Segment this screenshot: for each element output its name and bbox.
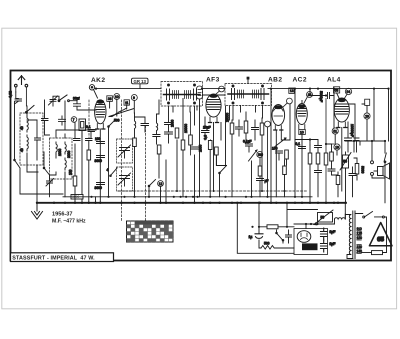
oscillator coil dashed box [50,138,73,179]
capacitor 5000pF text [319,91,323,102]
svg-text:2000: 2000 [67,150,71,158]
resistor 75 [69,169,77,186]
field coil loops [335,214,346,224]
mains switch [355,212,384,219]
mains wire right [383,217,387,253]
svg-text:AF3: AF3 [206,77,220,84]
rail cap 329 [310,89,334,99]
resistor 357 [354,158,365,180]
gang link dashed [89,100,146,222]
svg-text:65: 65 [377,237,384,243]
table grid [127,221,174,242]
label 10uF [203,126,211,130]
cap 260 low [257,179,269,197]
pin circle 267 [265,121,271,197]
cap under IFT1 [165,123,173,133]
vertical text 1000 [199,144,203,152]
svg-text:54: 54 [347,90,351,94]
ground bus thick [37,202,346,204]
antenna coil dashed box [20,113,43,165]
svg-text:30µf: 30µf [73,97,80,101]
speaker [374,163,390,179]
AC2 pin circle 36 [304,92,313,104]
svg-text:150: 150 [357,236,363,240]
svg-text:3000: 3000 [72,195,80,199]
wires AC2 [295,89,302,197]
switch 4 [107,168,118,177]
cap 318 low [315,171,322,197]
pin circle 10 [114,94,120,100]
tube label AK2 [91,77,105,84]
wires antenna block [27,106,38,203]
resistor 159 [157,100,161,178]
band switch [26,106,35,114]
warning triangle 65 [369,223,392,246]
svg-text:3000: 3000 [95,186,103,190]
cap 0,1 mid [42,100,50,135]
svg-text:51: 51 [333,129,337,133]
pin circle 16 [334,144,340,150]
resistor 232 25000 [226,113,234,197]
svg-text:0,02: 0,02 [9,91,13,98]
svg-text:10: 10 [300,131,304,135]
caps 10000pF pair [345,124,360,152]
AZ1 label box [302,243,318,251]
wires osc block [50,130,66,197]
oscillator coils [56,142,71,170]
wires below IFT1 [169,99,198,203]
box GR13 [132,78,149,88]
IFT1 internals [164,84,201,104]
switch AF3 low [216,155,226,197]
small switch power [276,230,284,243]
cap 89 col [86,139,93,151]
box 197 [197,86,203,197]
wires AL4 [334,89,367,191]
AL4 pin box B [365,99,370,105]
cap 249 low [243,140,253,153]
resistor 210 [204,135,213,197]
svg-text:1956-37: 1956-37 [52,212,73,218]
svg-text:40: 40 [20,126,24,130]
svg-text:26: 26 [365,114,369,118]
svg-text:2000: 2000 [171,119,175,127]
cap 352 low [349,167,356,197]
wires AB2 [271,89,290,203]
svg-text:25000: 25000 [226,113,230,122]
IFT2 internals [228,85,269,104]
resistor 177 [171,119,179,138]
cap 194 low [191,147,199,149]
tube label AL4 [327,77,341,84]
text MF 477 kHz [52,219,86,225]
transformer primary [345,203,353,259]
svg-text:GR 13: GR 13 [134,79,147,84]
resistor 338 low [332,172,340,197]
resistor 183b [181,140,185,150]
pin box 291 [289,88,294,93]
cap2 under IFT1 [165,132,173,143]
top supply rail [53,89,389,101]
pin box 11 [124,100,129,105]
switch 2 [58,95,69,102]
svg-text:10: 10 [115,95,119,99]
switch left low [14,159,63,194]
svg-text:AZ1: AZ1 [304,245,314,251]
IF transformer 1 dashed box [161,82,203,107]
cap 318 high [315,146,322,154]
AL4 pin box 58 [334,87,340,93]
trimmer box 82 [79,119,86,137]
cap 239 [236,120,243,136]
ground symbol [32,203,43,219]
svg-text:12: 12 [159,182,163,186]
electrolytic 8uF 1 [321,228,336,240]
svg-text:58: 58 [335,89,339,93]
svg-text:50: 50 [321,216,325,220]
small cap power [286,230,292,243]
pot diag 252 [249,150,258,161]
tube label AC2 [293,77,307,84]
trimmer low [46,179,54,197]
pin circle 74 [71,117,77,123]
AB2 pin circle [283,98,292,107]
svg-text:1000: 1000 [199,144,203,152]
switch 152 [148,180,155,197]
wires below IFT2 [233,77,263,120]
AF3 pin circle [216,86,224,94]
svg-text:0,3: 0,3 [204,135,208,140]
svg-text:220: 220 [357,245,363,249]
dashed AVC bus [118,190,308,192]
AVC pot diag [275,138,286,147]
solid bus [63,196,312,198]
svg-text:40: 40 [20,148,24,152]
svg-text:AB2: AB2 [268,77,282,84]
svg-text:3000: 3000 [95,159,103,163]
transformer core [353,211,355,259]
svg-text:110: 110 [357,227,362,231]
tube AK2 [95,100,106,129]
svg-text:125: 125 [357,232,363,236]
svg-text:100: 100 [69,169,73,175]
resistor 310 [308,145,312,203]
resistor 246 [244,112,248,143]
tube AC2 [296,104,307,130]
resistor box 284.5 [283,160,287,197]
cap 3000 b [95,183,105,191]
svg-text:µF: µF [265,179,269,183]
capacitor 50 [59,97,97,131]
AL4 pin circle 54 [344,88,352,99]
capacitor 0.02 [9,91,22,160]
wire 160 down [161,160,167,203]
osc coupling coil 500 [112,108,126,122]
svg-text:AK2: AK2 [91,77,105,84]
switch right [384,153,386,163]
pin circle 56 [252,152,263,197]
tube AB2 [272,105,285,131]
svg-text:8µF: 8µF [330,230,336,234]
resistor 262 [260,118,264,191]
trimmer cap 3-30 [49,96,58,106]
resistor 216 [215,147,219,165]
field coil box [314,210,333,225]
AL4 pin circle 51 [332,128,338,134]
svg-text:0,1µF: 0,1µF [243,140,252,144]
svg-text:4: 4 [107,168,109,172]
resistor 88 [87,150,91,203]
resistor 500 zigzag [261,242,294,250]
svg-text:1µ: 1µ [249,235,253,239]
IF transformer 2 dashed box [225,84,272,106]
tube AF3 [206,94,221,123]
svg-text:10000pF: 10000pF [350,124,354,137]
table dark cells [127,221,174,242]
cap 86 low [71,195,83,200]
tuning gang section 1 [117,139,133,163]
resistor 286.5 [285,150,289,165]
tube AZ1 [297,231,311,243]
text 1956-37 [52,212,73,218]
cap 3000 a [95,156,105,164]
wire bus to cap [237,203,294,254]
svg-text:11: 11 [125,101,129,105]
coil 156 [157,114,158,134]
schematic outer frame [11,71,392,261]
wire y140 [295,140,318,146]
svg-text:10000: 10000 [184,124,188,133]
svg-text:0,1: 0,1 [296,142,301,146]
cap 255 [252,120,259,140]
cap AF3 a [202,131,210,139]
cap 279 [272,147,283,161]
pin circle 9 [131,95,137,101]
antenna coil windings [20,116,41,160]
resistor 134 [133,138,137,197]
svg-text:38: 38 [108,97,112,101]
transformer taps [357,227,363,254]
AC2 pin box 10 [299,130,306,135]
switch mid low [43,152,49,180]
electrolytic cap [249,234,264,239]
svg-text:0,1: 0,1 [86,125,91,129]
AK2 top cap pin [89,85,97,98]
resistor 190 [184,112,192,155]
wires AF3 [203,95,230,191]
title box [11,253,114,262]
resistor 318 [316,153,320,170]
svg-text:7: 7 [73,118,75,122]
tuning gang section 2 [117,167,133,191]
svg-text:56: 56 [258,153,262,157]
svg-text:500: 500 [264,242,270,246]
pin box 38 [107,96,113,102]
electrolytic 8uF 2 [321,240,336,252]
svg-text:1000: 1000 [58,148,62,156]
wires AK2 area [96,100,135,203]
svg-text:16: 16 [335,145,339,149]
filter resistor box [267,225,278,229]
fuse box [361,251,382,255]
svg-text:50: 50 [343,160,347,164]
svg-text:100: 100 [95,137,101,141]
antenna [15,76,28,106]
svg-text:AL4: AL4 [327,77,341,84]
svg-text:100: 100 [272,147,278,151]
jack terminals [371,161,374,176]
tube AL4 [334,98,349,128]
tube label AF3 [206,77,220,84]
cap 77 [74,139,81,141]
svg-text:M.F. ~477 kHz: M.F. ~477 kHz [52,219,86,225]
right net [345,89,389,203]
coil 134 [135,113,136,138]
svg-text:10µF: 10µF [203,126,211,130]
svg-text:STASSFURT - IMPERIAL 47 W.: STASSFURT - IMPERIAL 47 W. [12,256,95,262]
tone pot 50 [340,152,351,203]
svg-text:5000pF: 5000pF [319,91,323,102]
svg-text:8µF: 8µF [330,242,336,246]
column 75 [75,123,82,203]
cap 145 [135,117,149,132]
cap 0,1 left of legs [86,125,95,138]
resistor 326 [324,99,334,203]
svg-text:5000: 5000 [361,166,365,174]
cap 156 [153,135,160,145]
pin circle 160 [158,181,164,187]
tube label AB2 [268,77,282,84]
cap 333 [328,169,335,175]
resistor 260 low [258,158,262,179]
svg-text:13: 13 [290,89,294,93]
rectifier rect outline [294,229,328,255]
wire y224 [294,222,335,229]
cap 302 low [296,142,306,149]
svg-text:9: 9 [133,96,135,100]
padder cap 100 [95,137,105,144]
wire 287 [287,203,318,227]
AL4 pin circle 26 [364,113,370,119]
switch at 110 [108,120,116,197]
svg-text:AC2: AC2 [293,77,307,84]
resistor 331 [326,144,333,169]
